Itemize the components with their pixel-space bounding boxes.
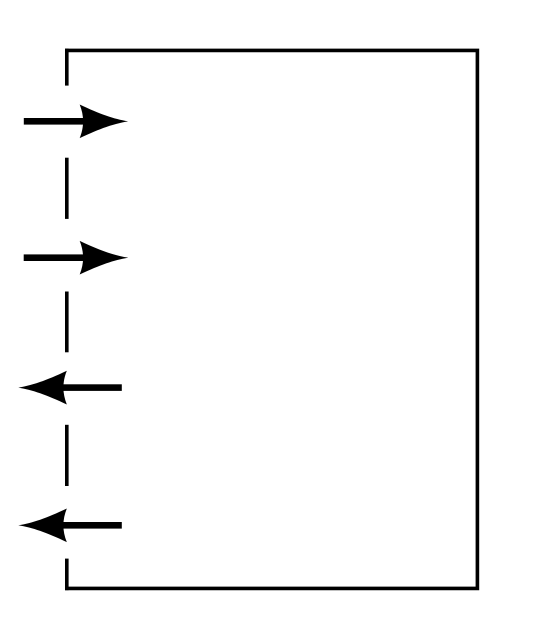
dashed left edge dash 1 xyxy=(65,49,69,86)
arrow 2 (inflow, points right) shaft xyxy=(24,254,105,261)
dashed left edge dash 3 xyxy=(65,292,69,353)
arrow 4 head xyxy=(18,508,67,542)
arrow 4 (outflow, points left) shaft xyxy=(41,522,122,529)
box outline (top, right, bottom edges) xyxy=(65,50,477,588)
arrow 3 (outflow, points left) shaft xyxy=(41,384,122,391)
dashed left edge dash 5 xyxy=(65,559,69,591)
arrow 3 head xyxy=(18,371,67,405)
arrow 1 (inflow, points right) shaft xyxy=(24,118,105,125)
dashed left edge dash 4 xyxy=(65,425,69,486)
arrow 2 head xyxy=(80,241,129,275)
dashed left edge dash 2 xyxy=(65,158,69,219)
arrow 1 head xyxy=(80,104,129,138)
